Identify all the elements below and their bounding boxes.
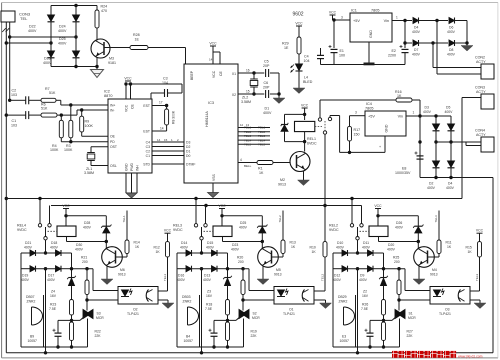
svg-text:16V: 16V — [206, 294, 213, 298]
svg-text:IC1: IC1 — [351, 9, 357, 13]
resistor R16 1K — [396, 98, 412, 102]
svg-text:400V: 400V — [336, 245, 345, 249]
wire IC1 gnd — [368, 42, 370, 63]
svg-text:VCC: VCC — [374, 204, 382, 208]
diode D19 400V — [21, 268, 30, 270]
svg-text:CE: CE — [131, 104, 135, 109]
svg-text:9013: 9013 — [430, 272, 438, 276]
svg-text:ACTY: ACTY — [476, 133, 486, 137]
svg-text:TEL: TEL — [20, 16, 28, 21]
wire IC3 VSS to ground — [212, 183, 214, 193]
switch armature TEL3 — [356, 237, 359, 240]
resistor R1 1K on BELL — [238, 162, 257, 164]
wire bus line2 y205.5 — [51, 205, 362, 207]
resistor R20 200 — [242, 269, 244, 280]
ground below M3 — [95, 65, 98, 68]
svg-text:20P: 20P — [263, 85, 270, 89]
resistor R23 7.5E — [70, 300, 74, 316]
svg-text:TLP421: TLP421 — [439, 312, 451, 316]
svg-text:400V: 400V — [412, 30, 421, 34]
diode D4 400V — [413, 18, 419, 24]
svg-text:HM9114A: HM9114A — [205, 111, 209, 127]
wire R28 to IC3 BEEP — [185, 48, 187, 65]
wire R7 to IN+ — [56, 99, 61, 101]
watermark red company text — [392, 351, 398, 358]
svg-text:CON4: CON4 — [475, 129, 485, 133]
capacitor E1 100 — [333, 20, 335, 48]
diode D13 400V — [212, 266, 218, 272]
svg-text:400V: 400V — [359, 278, 368, 282]
switch contact TEL3 b — [360, 224, 363, 227]
diode D8 400V — [449, 40, 455, 46]
wire opto O1 collector — [314, 290, 325, 292]
transistor M5 9013 — [261, 242, 263, 250]
power VCC IC3 — [212, 46, 214, 64]
svg-text:10057: 10057 — [184, 339, 194, 343]
svg-text:20P: 20P — [263, 64, 270, 68]
svg-text:400V: 400V — [83, 225, 92, 229]
svg-text:ACTY: ACTY — [476, 60, 486, 64]
connector CON3 TEL — [1, 11, 15, 22]
svg-text:1K: 1K — [447, 245, 452, 249]
svg-text:CON2: CON2 — [475, 56, 485, 60]
svg-text:CON3: CON3 — [475, 86, 485, 90]
svg-text:400V: 400V — [47, 278, 56, 282]
resistor R4 100K — [60, 115, 62, 120]
svg-text:400V: 400V — [427, 186, 436, 190]
svg-text:400V: 400V — [263, 111, 272, 115]
svg-text:400V: 400V — [333, 278, 342, 282]
svg-text:400V: 400V — [206, 245, 215, 249]
wire diode rows right end — [466, 21, 468, 44]
svg-text:2200: 2200 — [388, 53, 396, 57]
svg-text:4: 4 — [240, 158, 242, 162]
svg-text:9VDC: 9VDC — [173, 228, 183, 232]
wire VCC rail TEL2 — [222, 215, 262, 217]
svg-text:IN+: IN+ — [110, 104, 115, 108]
svg-text:1K: 1K — [468, 250, 473, 254]
svg-text:VCC: VCC — [209, 41, 217, 45]
svg-text:400V: 400V — [423, 110, 432, 114]
svg-text:TLP421: TLP421 — [127, 312, 139, 316]
diode D5 400V — [448, 124, 455, 130]
svg-text:Vin: Vin — [384, 19, 389, 23]
wire X1 — [238, 72, 254, 74]
svg-text:C3: C3 — [146, 145, 150, 149]
svg-text:400V: 400V — [412, 52, 421, 56]
svg-text:CE: CE — [219, 71, 223, 76]
svg-text:PD: PD — [110, 140, 115, 144]
wire bridge TEL3 rails — [332, 253, 334, 347]
wire bridge1 bottom rail — [51, 66, 97, 68]
diode D4b 400V — [450, 142, 452, 161]
svg-text:9VDC: 9VDC — [329, 228, 339, 232]
wire opto O3 collector — [470, 290, 480, 292]
svg-text:X1: X1 — [232, 72, 236, 76]
wire TEL1 net down — [167, 257, 169, 291]
resistor R26 7.5E — [382, 300, 386, 316]
transistor M6 9013 — [105, 242, 107, 250]
diode D11 400V — [368, 250, 374, 256]
svg-text:DTMF: DTMF — [186, 162, 195, 166]
wire opto O3 LED cathode — [399, 299, 430, 301]
resistor R3 100K — [70, 105, 72, 120]
op-amp U IC3 HM9114A — [184, 64, 238, 183]
resistor R28 1E — [104, 47, 130, 49]
svg-text:6VDC: 6VDC — [307, 141, 317, 145]
diode D15 400V — [212, 250, 218, 256]
wire gnd rail — [321, 64, 406, 66]
svg-text:1K: 1K — [397, 94, 402, 98]
diode D7 400V — [413, 40, 419, 46]
wire bus line1 y198 — [6, 198, 462, 200]
svg-text:9181: 9181 — [108, 61, 116, 65]
resistor R7 51K — [41, 98, 56, 102]
svg-text:+5V: +5V — [353, 19, 360, 23]
svg-text:7.5E: 7.5E — [361, 307, 369, 311]
wire bottom rail TEL1 — [21, 346, 88, 348]
ground bar IC1 — [364, 63, 375, 66]
capacitor snubber TEL2 — [213, 320, 215, 333]
wire caps to ground — [278, 73, 280, 98]
connector CON2 ACTY — [481, 64, 494, 79]
capacitor C3 104 — [150, 93, 152, 99]
svg-text:10057: 10057 — [28, 339, 38, 343]
optocoupler O3 TLP421 — [430, 287, 470, 305]
svg-text:400V: 400V — [50, 245, 59, 249]
svg-text:14: 14 — [157, 138, 161, 142]
triac S2 MCR — [239, 310, 246, 319]
svg-text:IC2: IC2 — [104, 90, 110, 94]
diode D17 400V — [56, 266, 62, 272]
ground M6 — [101, 279, 113, 285]
ground IC2 — [126, 193, 137, 198]
resistor R8 300K on EST — [152, 105, 167, 107]
svg-text:7805: 7805 — [371, 9, 379, 13]
transistor M2 9013 — [290, 152, 310, 172]
svg-text:MCR: MCR — [408, 316, 416, 320]
capacitor C1 103 — [5, 113, 8, 116]
capacitor C4 104 rail — [320, 48, 322, 56]
optocoupler O1 TLP421 — [274, 287, 314, 305]
svg-text:C1: C1 — [146, 154, 150, 158]
svg-text:VCC: VCC — [476, 229, 484, 233]
svg-text:14: 14 — [209, 58, 213, 62]
svg-text:C4: C4 — [146, 140, 150, 144]
wire bridge2 mid rail to CON4 — [436, 141, 481, 143]
optocoupler O2 TLP421 — [118, 287, 158, 305]
svg-text:400V: 400V — [239, 225, 248, 229]
wire to CON2 pin2 — [431, 41, 434, 44]
svg-text:13: 13 — [246, 123, 250, 127]
svg-text:200: 200 — [238, 260, 244, 264]
svg-text:9602: 9602 — [292, 12, 303, 18]
wire IC2 Q outputs to IC3 — [152, 141, 184, 143]
wire TEL2 net down — [324, 257, 326, 291]
svg-text:TEL2: TEL2 — [321, 273, 325, 281]
svg-text:X2: X2 — [232, 93, 236, 97]
svg-text:OE: OE — [110, 135, 116, 139]
svg-text:VCC: VCC — [329, 10, 337, 14]
wire bridge TEL1 input — [45, 240, 47, 253]
svg-text:51K: 51K — [49, 91, 56, 95]
wire phone line A vertical left — [9, 22, 11, 100]
relay REL1 6VDC — [295, 121, 315, 131]
ground LED — [293, 88, 305, 94]
crystal ZL1 3.58M — [91, 146, 108, 148]
wire bridge2 bottom rail — [420, 177, 493, 179]
svg-text:ACTY: ACTY — [476, 90, 486, 94]
svg-text:200: 200 — [394, 260, 400, 264]
svg-text:TLP421: TLP421 — [283, 312, 295, 316]
wire bridge TEL2 input — [201, 240, 203, 253]
svg-text:400V: 400V — [75, 247, 84, 251]
connector CON4 ACTY — [481, 137, 494, 152]
svg-text:100K: 100K — [85, 124, 94, 128]
diode D21 400V — [21, 252, 30, 254]
wire X2 — [238, 93, 254, 95]
svg-text:1K: 1K — [156, 250, 161, 254]
wire bridge1 input A — [8, 35, 11, 38]
svg-text:R9: R9 — [85, 120, 90, 124]
wire opto O3 LED anode — [404, 269, 406, 291]
svg-text:400V: 400V — [58, 29, 67, 33]
ground M4 — [413, 279, 425, 285]
svg-text:15: 15 — [246, 89, 250, 93]
switch contact TEL1 b — [48, 224, 51, 227]
svg-text:VCC: VCC — [62, 204, 70, 208]
wire gate line TEL1 — [58, 319, 80, 321]
wire IC4 Vin to bridge — [406, 115, 420, 117]
svg-text:8870: 8870 — [104, 94, 112, 98]
wire IC2 STD to IC3 DTMF — [152, 163, 184, 165]
svg-text:VCC: VCC — [212, 70, 216, 78]
wire bridge TEL2 rails — [176, 253, 178, 347]
diode D26 400V flyback — [417, 216, 419, 226]
svg-text:Vin: Vin — [398, 115, 403, 119]
svg-text:1: 1 — [413, 111, 415, 115]
wire opto O2 collector — [158, 290, 168, 292]
svg-text:1K: 1K — [291, 245, 296, 249]
op-amp U IC4 7805 — [365, 111, 406, 136]
svg-text:OSL: OSL — [110, 164, 117, 168]
svg-text:400V: 400V — [24, 245, 33, 249]
wire IC4 gnd return — [384, 136, 386, 152]
wire bottom rail TEL3 — [333, 346, 400, 348]
svg-text:400V: 400V — [395, 225, 404, 229]
wire bridge TEL1 rails — [20, 253, 22, 347]
svg-text:MCR: MCR — [96, 316, 104, 320]
wire opto O1 LED anode — [248, 269, 250, 291]
svg-text:7.5E: 7.5E — [49, 307, 57, 311]
svg-text:TEL5: TEL5 — [244, 143, 252, 147]
svg-text:C2: C2 — [146, 149, 150, 153]
svg-text:16V: 16V — [50, 294, 57, 298]
triac S3 MCR — [83, 310, 90, 319]
svg-text:400V: 400V — [203, 278, 212, 282]
svg-text:+: + — [379, 145, 381, 149]
wire opto O3 emitter — [470, 299, 480, 301]
resistor R6 51K — [41, 113, 57, 117]
wire gate line TEL2 — [214, 319, 236, 321]
ground opto O2 — [162, 303, 174, 309]
switch armature TEL2 — [200, 237, 203, 240]
svg-text:MCR: MCR — [252, 316, 260, 320]
svg-text:7.5E: 7.5E — [205, 307, 213, 311]
svg-text:GND: GND — [385, 124, 389, 132]
svg-text:IC3: IC3 — [208, 101, 214, 105]
wire to CON2 pin1 — [435, 19, 438, 22]
capacitor E8 1000/35V — [417, 155, 424, 157]
switch armature TEL1 — [44, 237, 47, 240]
zener Z2 16V — [381, 277, 387, 279]
svg-text:1E: 1E — [135, 37, 140, 41]
svg-text:400V: 400V — [231, 247, 240, 251]
LED L4 — [296, 64, 303, 71]
diode D9 400V — [368, 266, 374, 272]
svg-text:INH: INH — [136, 165, 140, 171]
crystal ZL2 3.58M — [253, 73, 255, 79]
svg-text:R8 300K: R8 300K — [172, 110, 176, 124]
svg-text:1E: 1E — [284, 46, 289, 50]
svg-text:TEL1: TEL1 — [163, 273, 167, 281]
diode D25 400V flyback — [261, 216, 263, 226]
wire R16 to bridge2 — [412, 99, 420, 101]
svg-text:14: 14 — [160, 127, 164, 131]
diode D1 400V flyback — [285, 113, 305, 115]
svg-text:3.58M: 3.58M — [241, 100, 251, 104]
ground opto O3 — [474, 303, 486, 309]
svg-text:9VDC: 9VDC — [17, 228, 27, 232]
svg-text:400V: 400V — [447, 52, 456, 56]
wire VCC to C3 node — [128, 83, 182, 85]
border frame — [2, 2, 498, 4]
svg-text:22K: 22K — [407, 334, 414, 338]
wire bridge1 top rail — [51, 5, 97, 7]
diode D6 400V — [449, 18, 455, 24]
svg-text:TEL3: TEL3 — [475, 273, 479, 281]
op-amp U IC2 8870 DTMF decoder — [108, 99, 152, 173]
svg-text:100K: 100K — [64, 148, 73, 152]
svg-text:400V: 400V — [445, 110, 454, 114]
diode D28 400V flyback — [105, 216, 107, 226]
diode D22 400V — [50, 6, 52, 16]
wire E2 row2 link — [405, 42, 412, 44]
svg-text:D2: D2 — [186, 145, 190, 149]
diode D25 400V — [73, 51, 80, 57]
svg-text:TEL2: TEL2 — [278, 215, 282, 223]
resistor R9 100K — [81, 110, 83, 116]
svg-text:TEL1: TEL1 — [122, 215, 126, 223]
diode D12 400V — [333, 268, 342, 270]
ground opto O1 — [320, 303, 332, 309]
svg-text:400V: 400V — [28, 29, 37, 33]
svg-text:GND: GND — [369, 30, 373, 38]
svg-text:VCC: VCC — [125, 104, 129, 112]
svg-text:12: 12 — [240, 123, 244, 127]
wire IC1 Vin — [392, 20, 412, 22]
svg-text:1K: 1K — [259, 171, 264, 175]
wire relay coil bottom D30 — [66, 237, 68, 242]
svg-text:3.58M: 3.58M — [84, 171, 94, 175]
resistor R25 200 — [398, 269, 400, 280]
zener Z3 16V — [225, 277, 231, 279]
svg-text:400V: 400V — [387, 247, 396, 251]
ground crystal caps — [273, 98, 285, 104]
svg-text:150: 150 — [354, 132, 360, 136]
ground M2 — [298, 180, 310, 186]
wire phone switch line y100 — [320, 99, 396, 101]
svg-text:3: 3 — [355, 110, 357, 114]
wire opto O2 LED cathode — [87, 299, 118, 301]
wire bottom rail TEL2 — [177, 346, 244, 348]
svg-text:103: 103 — [11, 93, 17, 97]
capacitor snubber TEL1 — [57, 320, 59, 333]
wire relay coil bottom D23 — [222, 237, 224, 242]
wire bottom bus y352.8 — [6, 352, 493, 354]
svg-text:www.jrkj-dz.com: www.jrkj-dz.com — [458, 355, 483, 359]
capacitor C2 103 — [8, 99, 11, 102]
zener Z4 16V — [69, 277, 75, 279]
svg-text:22K: 22K — [251, 334, 258, 338]
wire TEL3 net down — [479, 257, 481, 291]
wire phone line B vertical left — [5, 22, 7, 353]
svg-text:VCC: VCC — [124, 76, 132, 80]
svg-text:104: 104 — [304, 59, 310, 63]
svg-text:400V: 400V — [180, 245, 189, 249]
capacitor C5 20P — [254, 72, 264, 74]
wire opto O1 emitter — [314, 299, 326, 301]
op-amp U IC1 7805 — [350, 13, 392, 42]
transistor M3 8550 — [91, 39, 110, 58]
svg-text:ZNR2: ZNR2 — [339, 299, 348, 303]
svg-text:1: 1 — [396, 16, 398, 20]
svg-text:9013: 9013 — [278, 182, 286, 186]
svg-text:VCC: VCC — [218, 204, 226, 208]
svg-text:IN-: IN- — [110, 108, 115, 112]
svg-text:400V: 400V — [177, 278, 186, 282]
svg-text:17: 17 — [159, 101, 163, 105]
triac S1 MCR — [395, 310, 402, 319]
svg-text:ZNR2: ZNR2 — [27, 299, 36, 303]
diode D2 400V — [435, 142, 437, 161]
resistor R14 1K — [126, 211, 128, 241]
varistor DB29 — [343, 307, 345, 325]
svg-text:400V: 400V — [21, 278, 30, 282]
diode D16 400V — [177, 268, 186, 270]
wire opto O2 emitter — [158, 299, 168, 301]
svg-text:400V: 400V — [362, 245, 371, 249]
resistor R18 7.5E — [226, 300, 230, 316]
svg-text:D3: D3 — [186, 140, 190, 144]
wire bridge2 top rail — [420, 115, 451, 117]
wire R4 R3 to PD — [61, 141, 108, 143]
svg-text:D0: D0 — [186, 154, 190, 158]
svg-text:1000/35V: 1000/35V — [395, 171, 411, 175]
svg-text:7805: 7805 — [365, 106, 373, 110]
wire IC2 ground pins — [125, 173, 127, 193]
svg-text:BLED: BLED — [303, 80, 313, 84]
ground IC3 — [208, 193, 219, 198]
resistor R19 22K — [226, 322, 230, 341]
svg-text:OST: OST — [110, 145, 117, 149]
svg-text:VSS: VSS — [212, 173, 216, 181]
wire bridge1 input B — [5, 41, 8, 44]
wire IC2 VCC pins up — [125, 84, 127, 99]
svg-text:10057: 10057 — [340, 339, 350, 343]
switch contact TEL2 b — [204, 224, 207, 227]
switch armature — [323, 131, 326, 134]
